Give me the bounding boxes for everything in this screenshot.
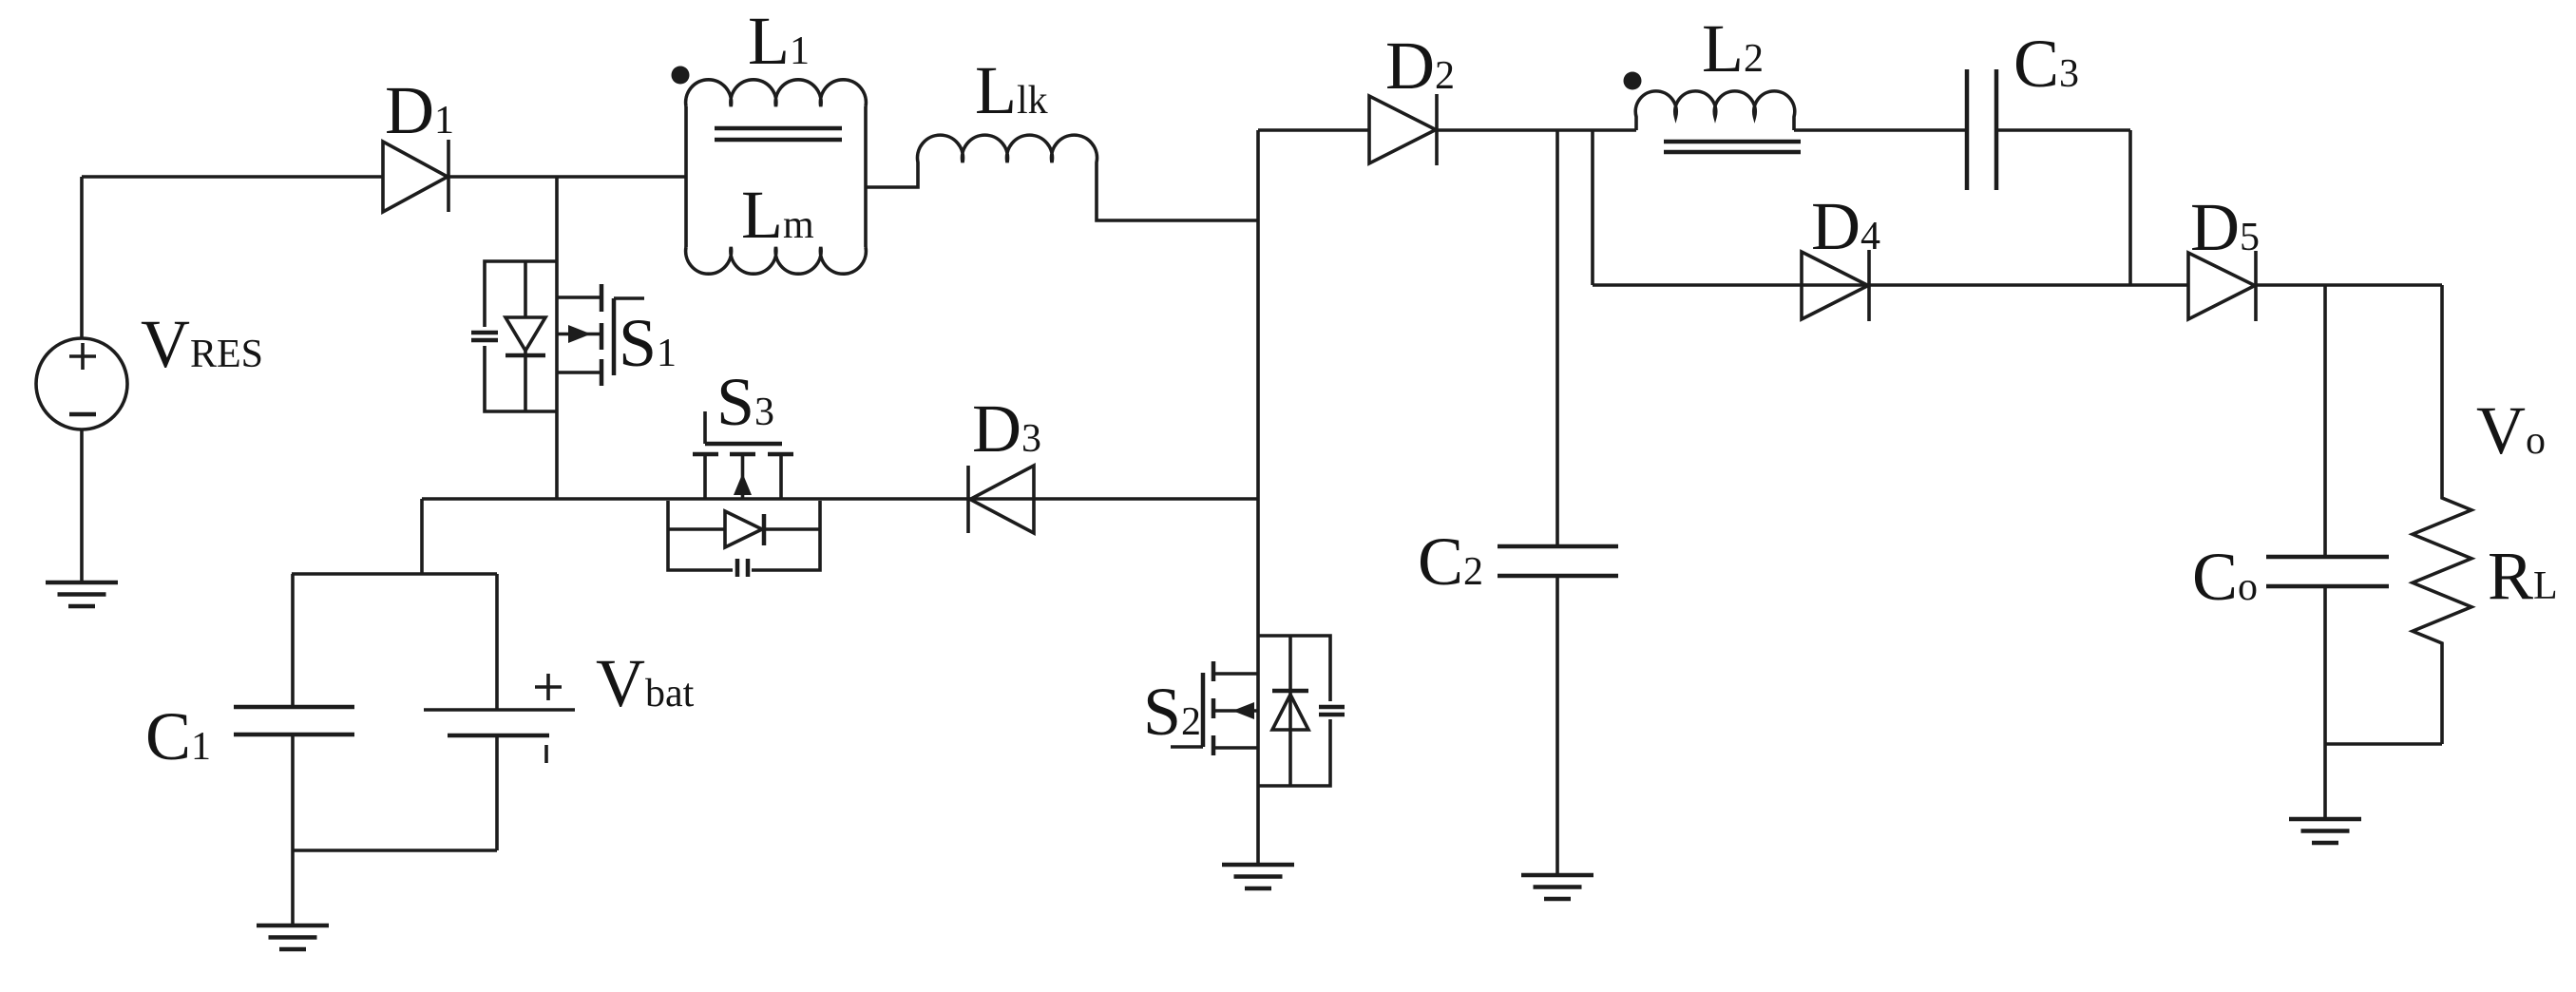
body diode of S1 (box) [485, 261, 557, 411]
wire (VRES top to D1) [82, 175, 383, 179]
voltage source VRES [36, 177, 127, 582]
capacitor C2 [1498, 130, 1618, 875]
diode D2 [1369, 94, 1437, 165]
wire (node vertical: D2 anode / Llk / D3 / S2 drain) [1256, 130, 1260, 865]
wire (battery top rail) [292, 572, 497, 576]
resistor RL [2413, 285, 2471, 744]
wire (S1 drain/source vertical) [555, 177, 559, 499]
snubber capacitor of S3 [737, 559, 748, 577]
capacitor C1 [234, 574, 354, 850]
winding dot (L2) [1624, 72, 1642, 90]
ground (output) [2289, 819, 2361, 843]
ground (below S2) [1222, 865, 1294, 888]
transistor S2 [1171, 661, 1258, 755]
diode D5 [2188, 251, 2256, 321]
wire (battery bottom rail) [293, 849, 497, 852]
diode D3 [968, 466, 1034, 533]
wire (output bottom rail) [2325, 742, 2442, 746]
ground (below VRES) [46, 582, 118, 606]
battery Vbat [424, 574, 575, 850]
ground (below C2) [1521, 875, 1593, 899]
wire (D5 to output node) [2257, 283, 2442, 287]
wire (S1 source rail to D3 to S2) [422, 497, 1258, 501]
coupled inductor L1 / Lm [686, 80, 867, 274]
body diode of S3 (box) [668, 501, 820, 570]
diode D1 [383, 140, 448, 212]
capacitor C3 [1967, 69, 2130, 285]
wire (D1 to L1) [448, 175, 686, 179]
wire (branch down to D4) [1591, 130, 1594, 285]
wire (to output ground) [2323, 744, 2327, 819]
capacitor Co [2266, 285, 2389, 744]
body diode of S2 (box) [1258, 636, 1330, 786]
wire (D4/D5 rail) [1593, 283, 2188, 287]
snubber capacitor of S1 [471, 333, 498, 340]
snubber capacitor of S2 [1319, 707, 1345, 715]
wire (rail down to battery rail) [420, 499, 424, 574]
wire (L2 to C3) [1794, 128, 1967, 132]
winding dot (L1) [672, 67, 690, 85]
wire (D2 cathode to L2) [1437, 128, 1636, 132]
diode D4 [1802, 250, 1869, 321]
wire (node to D2) [1258, 128, 1369, 132]
ground (below C1) [257, 925, 329, 949]
inductor L2 [1635, 91, 1801, 152]
wire (to C1 ground) [291, 850, 295, 925]
transistor S3 [693, 411, 793, 499]
inductor Llk [866, 135, 1258, 220]
transistor S1 [557, 284, 644, 386]
